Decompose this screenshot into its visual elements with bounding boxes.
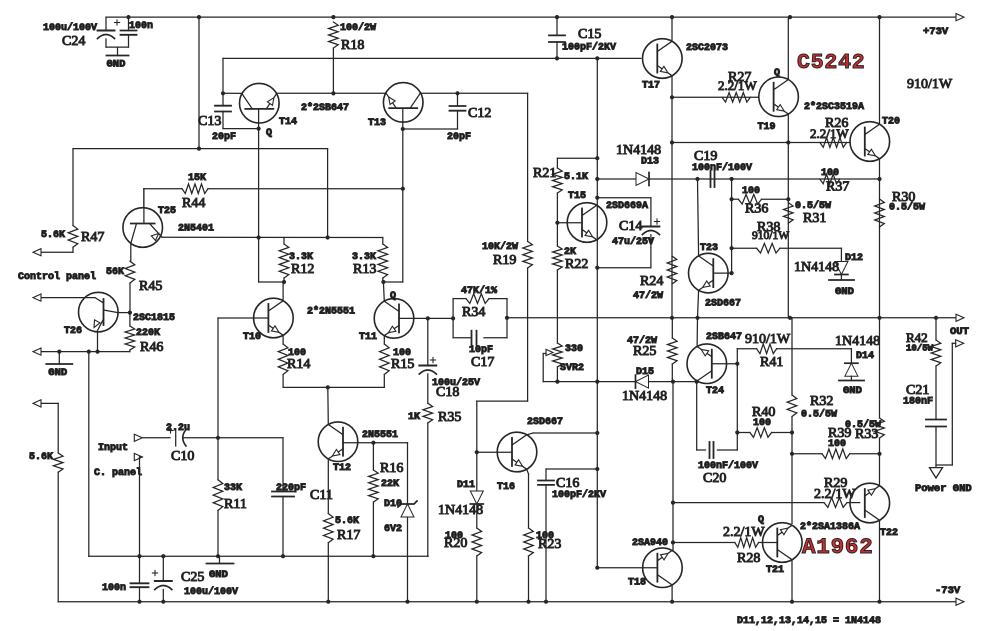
resistor R34 47K/1% with box: [453, 298, 466, 300]
wire T18 emitter column: [672, 382, 674, 551]
svg-text:T21: T21: [766, 565, 784, 576]
wire T11 emitter: [383, 336, 385, 344]
svg-text:2N5551: 2N5551: [362, 430, 398, 441]
wire T20 collector: [879, 17, 881, 124]
svg-text:910/1W: 910/1W: [745, 332, 791, 347]
wire T14 collector: [223, 92, 242, 94]
wire R21 top link: [557, 157, 597, 159]
ground GND signal: [219, 556, 221, 563]
svg-text:Control panel: Control panel: [18, 271, 96, 283]
svg-text:1N4148: 1N4148: [438, 503, 483, 518]
wire T21 emitter column: [791, 454, 793, 524]
svg-text:2*2SA1386A: 2*2SA1386A: [800, 521, 860, 533]
svg-text:C18: C18: [436, 385, 459, 400]
svg-text:0.5/5W: 0.5/5W: [801, 409, 837, 421]
svg-text:D13: D13: [641, 157, 659, 168]
svg-text:C11: C11: [310, 488, 333, 503]
wire T12 base line: [342, 442, 344, 443]
resistor R19 10K/2W: [523, 241, 533, 268]
diode D13: [636, 173, 649, 186]
svg-text:C15: C15: [578, 27, 601, 42]
svg-text:T17: T17: [642, 81, 660, 92]
transistor T19: [759, 77, 799, 117]
arrow C panel: [134, 453, 142, 460]
resistor R32 0.5/5W: [787, 395, 797, 417]
resistor R25 47/2W: [668, 338, 678, 364]
svg-text:100u/100V: 100u/100V: [184, 586, 238, 598]
wire T13 base column: [402, 108, 404, 282]
capacitor C15: [556, 17, 558, 35]
svg-text:R15: R15: [391, 357, 414, 372]
svg-text:R33: R33: [855, 427, 878, 442]
resistor R27 2.2/1W: [722, 93, 750, 103]
svg-text:R32: R32: [810, 394, 833, 409]
transistor T25: [123, 208, 163, 248]
svg-text:100: 100: [828, 439, 846, 450]
arrow R47: [33, 249, 41, 256]
svg-text:5.1K: 5.1K: [564, 172, 588, 183]
svg-text:R44: R44: [182, 196, 205, 211]
wire base column x737: [736, 349, 738, 450]
svg-text:0.5/5W: 0.5/5W: [889, 202, 925, 214]
svg-text:R13: R13: [353, 262, 376, 277]
svg-text:R21: R21: [533, 166, 556, 181]
wire T11 base to box: [399, 317, 453, 319]
svg-text:Input: Input: [98, 443, 128, 454]
svg-text:2SC2073: 2SC2073: [686, 43, 728, 54]
svg-text:GND: GND: [48, 367, 67, 379]
transistor T24: [687, 344, 727, 384]
resistor R30 0.5/5W: [875, 199, 885, 227]
svg-text:R19: R19: [493, 253, 516, 268]
svg-text:R31: R31: [803, 211, 826, 226]
power gnd symbol: [930, 468, 943, 478]
wire R26 line: [672, 142, 849, 144]
capacitor C16 100pF/2KV: [545, 469, 547, 481]
svg-text:910/1W: 910/1W: [907, 77, 953, 92]
svg-text:T23: T23: [700, 243, 718, 254]
resistor R38 910/1W: [732, 247, 757, 249]
+73V arrow: [956, 14, 964, 21]
svg-text:100n: 100n: [129, 21, 153, 32]
wire C24/100n join: [106, 46, 129, 48]
node dots on +73V rail: [126, 15, 130, 19]
transistor T13: [383, 83, 423, 123]
wire T14 base column: [258, 109, 260, 282]
resistor R23 100: [524, 528, 534, 556]
svg-text:15K: 15K: [188, 173, 206, 184]
node box left: [451, 316, 455, 320]
transistor T18: [643, 548, 683, 588]
wire T26 emitter: [97, 332, 99, 352]
capacitor 100n C25a: [131, 582, 149, 584]
transistor T26: [79, 292, 119, 332]
transistor T15: [567, 203, 607, 243]
wire D15 line: [557, 381, 696, 383]
svg-text:T22: T22: [880, 528, 898, 539]
svg-text:2SC1815: 2SC1815: [133, 313, 175, 324]
svg-text:910/1W: 910/1W: [752, 230, 789, 242]
svg-text:D14: D14: [856, 351, 874, 362]
capacitor C17 10pF: [471, 331, 473, 345]
arrow GND rail: [33, 348, 41, 355]
capacitor C20 100nF/100V: [697, 449, 706, 451]
svg-text:2SD667: 2SD667: [705, 299, 741, 310]
svg-text:OUT: OUT: [950, 326, 969, 338]
svg-text:C16: C16: [556, 476, 579, 491]
transistor T20: [850, 122, 890, 162]
capacitor C24: [105, 17, 107, 30]
svg-text:R12: R12: [291, 262, 314, 277]
capacitor C25 100u/100V: [155, 580, 172, 582]
transistor T11: [374, 299, 414, 339]
resistor R14 100: [278, 344, 288, 375]
potentiometer SVR2 330: [553, 343, 563, 367]
wire y148 bias line: [73, 148, 328, 150]
wire T23 emitter: [698, 290, 699, 318]
wire T10 base: [218, 317, 268, 319]
svg-text:330: 330: [565, 344, 583, 355]
wire T22 collector: [879, 520, 881, 602]
svg-text:T16: T16: [497, 482, 515, 493]
svg-text:R34: R34: [462, 305, 485, 320]
svg-text:2.2u: 2.2u: [166, 423, 190, 434]
svg-text:220pF: 220pF: [276, 483, 306, 494]
svg-text:100pF/2KV: 100pF/2KV: [562, 42, 616, 54]
svg-text:2N5401: 2N5401: [178, 224, 214, 235]
svg-text:T13: T13: [368, 118, 386, 129]
resistor R22 2K: [553, 246, 563, 270]
svg-text:100: 100: [821, 168, 839, 179]
svg-text:GND: GND: [835, 286, 854, 298]
svg-text:R37: R37: [826, 180, 849, 195]
wire T24 collector: [696, 380, 698, 383]
svg-text:R28: R28: [737, 551, 760, 566]
svg-text:D15: D15: [636, 367, 654, 378]
svg-text:T10: T10: [243, 332, 261, 343]
resistor R44 15K: [143, 189, 145, 208]
svg-text:100: 100: [753, 418, 771, 429]
resistor R41 910/1W: [737, 348, 756, 350]
diode D14: [850, 349, 852, 363]
svg-text:C5242: C5242: [797, 51, 866, 75]
svg-text:2*2N5551: 2*2N5551: [307, 306, 355, 318]
svg-text:R46: R46: [140, 340, 163, 355]
svg-text:1N4148: 1N4148: [835, 334, 880, 349]
svg-text:47u/25V: 47u/25V: [612, 236, 654, 248]
wire T24 emitter: [696, 318, 698, 347]
wire T25 collector to R45: [130, 244, 132, 262]
node R13 bottom: [381, 280, 385, 284]
svg-text:56K: 56K: [106, 267, 124, 278]
resistor R40 100: [750, 428, 772, 438]
svg-text:C12: C12: [468, 106, 491, 121]
svg-text:2SD669A: 2SD669A: [606, 201, 648, 212]
svg-text:5.6K: 5.6K: [335, 516, 359, 527]
wire T18 collector: [671, 585, 673, 602]
svg-text:33K: 33K: [224, 483, 242, 494]
svg-text:10/5W: 10/5W: [906, 344, 934, 354]
wire R28 line: [673, 542, 735, 544]
svg-text:R20: R20: [444, 536, 467, 551]
svg-text:100/2W: 100/2W: [340, 22, 376, 34]
svg-text:Q: Q: [266, 128, 272, 139]
transistor T16: [497, 432, 537, 472]
wire second rail y58: [223, 57, 641, 59]
resistor R17 5.6K: [324, 514, 334, 543]
OUT arrow: [956, 314, 964, 321]
svg-text:-73V: -73V: [935, 585, 961, 597]
svg-text:5.6K: 5.6K: [41, 230, 65, 241]
svg-text:2.2/1W: 2.2/1W: [718, 78, 757, 93]
svg-text:D12: D12: [845, 253, 863, 264]
wire -73V bottom rail: [58, 601, 957, 603]
wire R29 line: [673, 502, 824, 504]
resistor R24 47/2W: [667, 256, 677, 284]
wire T16 emitter R23: [527, 469, 529, 474]
svg-text:T18: T18: [628, 578, 646, 589]
svg-text:2*2SC3519A: 2*2SC3519A: [804, 101, 864, 113]
svg-text:1N4148: 1N4148: [794, 260, 839, 275]
svg-text:47/2W: 47/2W: [633, 290, 663, 302]
wire tail join: [283, 386, 384, 388]
resistor R21 5.1K: [553, 168, 563, 193]
wire T17 collector: [671, 17, 673, 41]
transistor T23: [689, 253, 729, 293]
node box right: [505, 316, 509, 320]
resistor R20 100: [472, 528, 482, 556]
svg-text:C14: C14: [619, 219, 642, 234]
svg-text:+73V: +73V: [923, 26, 949, 38]
svg-text:R14: R14: [287, 357, 310, 372]
svg-text:T14: T14: [279, 117, 297, 128]
resistor R47: [68, 226, 78, 248]
wire R36 branch: [731, 179, 733, 273]
node R45/R46: [128, 311, 132, 315]
ground GND top-left: [117, 47, 119, 55]
transistor T14: [239, 83, 279, 123]
wire T19 collector: [787, 17, 789, 80]
transistor T22: [850, 483, 890, 523]
OUT return arrow: [956, 340, 964, 347]
svg-text:10K/2W: 10K/2W: [482, 241, 518, 253]
wire T24 base: [712, 363, 738, 365]
svg-text:Power GND: Power GND: [915, 483, 972, 495]
wire T12 emitter: [327, 459, 329, 514]
svg-text:180nF: 180nF: [903, 397, 933, 408]
resistor R29 2.2/1W: [824, 498, 847, 508]
svg-text:T11: T11: [359, 332, 377, 343]
wire T17 emitter column: [671, 76, 673, 98]
box C14 47u/25V: [597, 197, 651, 199]
svg-text:220K: 220K: [136, 328, 160, 339]
wire left frame vertical: [88, 352, 90, 557]
svg-text:R22: R22: [565, 257, 588, 272]
capacitor C12: [457, 93, 459, 106]
wire signal ground line: [89, 555, 428, 557]
svg-text:100nF/100V: 100nF/100V: [692, 162, 752, 174]
wire diode line y179: [597, 178, 879, 180]
resistor R15 100: [380, 344, 390, 375]
transistor T10: [254, 298, 294, 338]
resistor R39 100: [792, 453, 822, 455]
wire emitter line T14-T13: [277, 92, 386, 94]
svg-text:D10: D10: [384, 499, 402, 510]
node R12 bottom: [282, 280, 286, 284]
wire T21 collector: [791, 560, 793, 602]
resistor R46 220K: [125, 326, 135, 350]
transistor T12: [318, 422, 358, 462]
svg-text:T25: T25: [158, 206, 176, 217]
svg-text:T26: T26: [64, 326, 82, 337]
resistor R31 0.5/5W: [784, 203, 794, 224]
transistor T17: [643, 39, 683, 79]
svg-text:20pF: 20pF: [212, 132, 236, 143]
resistor R36 100: [732, 198, 739, 200]
wire T25 emitter line: [162, 236, 383, 238]
svg-text:R41: R41: [760, 355, 783, 370]
wire T18 base: [597, 567, 657, 569]
wire T26 collector: [118, 312, 130, 314]
ground GND left: [58, 352, 60, 364]
svg-text:R23: R23: [538, 537, 561, 552]
diode D15: [636, 375, 649, 388]
svg-text:A1962: A1962: [802, 534, 874, 560]
svg-text:T19: T19: [758, 122, 776, 133]
wire output rail: [507, 317, 957, 319]
svg-text:2SB647: 2SB647: [706, 332, 742, 343]
svg-text:GND: GND: [843, 385, 862, 397]
wire T13 collector to C12: [421, 92, 528, 94]
node T16 base: [475, 450, 479, 454]
svg-text:100n: 100n: [102, 583, 126, 594]
wire T23 collector: [698, 179, 699, 256]
svg-text:2SA940: 2SA940: [632, 538, 668, 549]
diode D12: [840, 248, 842, 261]
svg-text:1N4148: 1N4148: [622, 389, 667, 404]
ground GND D12: [829, 279, 854, 281]
svg-text:47K/1%: 47K/1%: [461, 285, 497, 297]
svg-text:2*2SB647: 2*2SB647: [301, 102, 349, 114]
resistor R45 56K: [125, 261, 135, 283]
svg-text:R17: R17: [337, 528, 360, 543]
wire T10 collector: [282, 282, 284, 301]
svg-text:D11: D11: [457, 480, 475, 491]
resistor R33 0.5/5W: [875, 418, 885, 438]
-73V arrow: [956, 598, 964, 605]
capacitor C19 100nF/100V: [710, 171, 712, 187]
resistor R37 100: [820, 174, 840, 184]
wire +73V top rail: [106, 16, 957, 18]
resistor R35 1K: [423, 403, 433, 423]
capacitor C21 180nF: [926, 419, 946, 421]
svg-text:6V2: 6V2: [384, 524, 402, 535]
wire T13 collector drop R19: [527, 93, 529, 241]
resistor R12 3.3K: [279, 244, 289, 278]
svg-text:Q: Q: [774, 68, 780, 79]
wire T23 base: [713, 272, 731, 274]
svg-text:100: 100: [742, 186, 760, 197]
svg-text:T15: T15: [568, 191, 586, 202]
svg-text:C10: C10: [171, 449, 194, 464]
wire T12 collector: [327, 387, 330, 424]
wire C13 node drop: [222, 58, 224, 93]
svg-text:T20: T20: [882, 117, 900, 128]
wire R27 line: [672, 96, 758, 98]
wire T22 emitter col: [879, 454, 881, 486]
arrow input: [134, 434, 142, 441]
svg-text:C25: C25: [181, 570, 204, 585]
capacitor C10 2.2u: [142, 437, 170, 439]
svg-text:2.2/1W: 2.2/1W: [810, 126, 849, 141]
wire T20 emitter column: [879, 159, 881, 179]
wire GND rail left: [41, 351, 130, 353]
svg-text:22K: 22K: [381, 479, 399, 490]
svg-text:D11,12,13,14,15 = 1N4148: D11,12,13,14,15 = 1N4148: [737, 616, 881, 627]
wire T16 base: [477, 451, 512, 453]
resistor R16 22K: [369, 470, 379, 502]
zener diode D10 6V2: [407, 443, 409, 504]
svg-text:GND: GND: [107, 59, 126, 71]
wire T16 collector: [527, 433, 533, 435]
svg-text:R24: R24: [640, 274, 663, 289]
arrow T26 base: [33, 294, 41, 301]
wire T15 base: [555, 221, 559, 225]
resistor R13 3.3K: [378, 244, 388, 278]
svg-text:C20: C20: [703, 471, 726, 486]
capacitor 100n top-left: [128, 17, 130, 30]
svg-text:R16: R16: [380, 461, 403, 476]
svg-text:T12: T12: [333, 463, 351, 474]
resistor R28 2.2/1W: [735, 538, 759, 548]
svg-text:C24: C24: [62, 34, 85, 49]
svg-text:R18: R18: [341, 38, 364, 53]
svg-text:20pF: 20pF: [447, 132, 471, 143]
wire T10 emitter: [282, 335, 284, 344]
svg-text:C13: C13: [198, 114, 221, 129]
svg-text:1K: 1K: [408, 412, 420, 423]
ground GND D14: [839, 380, 864, 382]
capacitor C18 100u/25V: [427, 318, 429, 365]
svg-text:C17: C17: [471, 355, 494, 370]
wire T19 emitter column R31: [787, 114, 789, 143]
svg-text:GND: GND: [209, 569, 228, 581]
svg-text:2.2/1W: 2.2/1W: [723, 525, 765, 540]
resistor R42 10/5W: [931, 340, 941, 366]
node SVR2 bottom: [555, 380, 559, 384]
wire C panel drop: [139, 457, 141, 556]
diode D11: [476, 452, 478, 491]
node C10/R11: [216, 436, 220, 440]
arrow bottom left: [33, 400, 41, 407]
wire T11 collector: [382, 282, 385, 301]
wire R12/R13 top bracket: [283, 238, 285, 245]
svg-text:C. panel: C. panel: [94, 467, 142, 479]
capacitor C13: [215, 105, 231, 107]
capacitor C11 220pF: [282, 438, 284, 492]
svg-text:R45: R45: [139, 279, 162, 294]
svg-text:T24: T24: [706, 386, 724, 397]
wire +73 feed left column: [198, 17, 200, 149]
svg-text:SVR2: SVR2: [560, 363, 584, 374]
svg-text:R36: R36: [745, 202, 768, 217]
svg-text:R47: R47: [81, 230, 104, 245]
resistor R18: [329, 22, 339, 48]
resistor R11 33K: [213, 480, 223, 511]
resistor 5.6K bottom left: [53, 453, 63, 472]
svg-text:2SD667: 2SD667: [527, 417, 563, 428]
wire VAS main column x597: [596, 58, 598, 433]
